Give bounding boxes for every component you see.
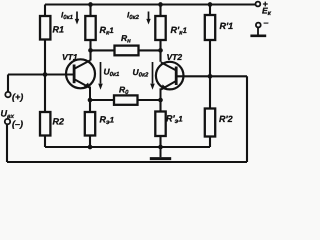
current arrow I0k2 [146, 12, 150, 25]
node VT2 base / R'1 R'2 [208, 74, 213, 79]
wire R1 column top lead [44, 5, 46, 17]
voltage arrow U0k2 [150, 62, 155, 90]
terminal -Ek [256, 23, 261, 28]
node bottom rail / R'e1 / ground [158, 145, 163, 150]
resistor Re1 [85, 112, 95, 136]
svg-text:–: – [264, 18, 269, 28]
resistor R'e1 [155, 112, 165, 137]
wire Rn left [91, 49, 115, 51]
transistor VT1 [66, 59, 95, 100]
wire right return down [246, 76, 248, 162]
resistor Rn [115, 46, 139, 56]
wire Rk1 bottom to VT1 collector [89, 40, 91, 61]
terminal (-) input [5, 119, 10, 124]
svg-text:VT1: VT1 [62, 52, 78, 62]
svg-text:R′1: R′1 [220, 21, 234, 31]
wire Re1 bottom lead [89, 136, 91, 148]
wire R'1 column top lead [209, 5, 211, 16]
terminal (+) input [5, 92, 10, 97]
node top rail / R'1 [208, 2, 213, 7]
svg-text:R′2: R′2 [219, 114, 233, 124]
wire Rk1 column top lead [89, 5, 91, 17]
node VT1 collector / Rn [88, 48, 93, 53]
node VT2 collector / Rn [158, 48, 163, 53]
wire R'e1 bottom lead [159, 136, 161, 147]
svg-text:VT2: VT2 [167, 52, 183, 62]
wire R'k1 bottom to VT2 collector [159, 40, 161, 62]
svg-text:R′э1: R′э1 [166, 114, 183, 126]
node top rail / R'k1 [158, 2, 163, 7]
node top rail / Rk1 [88, 2, 93, 7]
wire R'k1 column top lead [159, 5, 161, 17]
resistor Rk1 [85, 16, 95, 40]
wire Re1 top lead [89, 100, 91, 112]
wire top rail +Ek [45, 3, 255, 5]
wire bottom return to (-) input [7, 161, 247, 163]
current arrow I0k1 [75, 12, 79, 25]
resistor R0 [114, 95, 138, 104]
wire R'2 bottom lead [209, 137, 211, 148]
resistor R'2 [205, 109, 215, 137]
resistor R'k1 [155, 16, 165, 40]
wire bottom rail [45, 146, 210, 148]
wire VT2 base to R'1 node and right return [177, 75, 247, 77]
resistor R'1 [205, 15, 215, 40]
svg-text:R′к1: R′к1 [171, 25, 188, 37]
node VT1 emitter / R0 / Re1 [88, 98, 93, 103]
wire R2 bottom lead [44, 136, 46, 148]
wire R0 right [138, 99, 161, 101]
wire VT1 base [8, 73, 74, 75]
resistor R1 [40, 16, 50, 40]
node VT1 base / R1 R2 [43, 72, 48, 77]
voltage arrow U0k1 [98, 62, 103, 90]
wire Rn right [139, 49, 161, 51]
svg-text:R2: R2 [53, 117, 65, 127]
wire R0 left [90, 99, 114, 101]
svg-text:(–): (–) [12, 119, 23, 129]
node bottom rail / Re1 [88, 145, 93, 150]
wire (-) input lead [6, 124, 8, 162]
svg-text:R1: R1 [53, 25, 65, 35]
ground [160, 147, 162, 157]
svg-text:(+): (+) [12, 92, 23, 102]
transistor VT2 [156, 62, 184, 100]
node VT2 emitter / R0 / R'e1 [158, 98, 163, 103]
resistor R2 [40, 112, 50, 136]
wire (+) input lead [7, 75, 9, 93]
ground -Ek [257, 27, 259, 34]
wire R1 bottom to base node [44, 40, 46, 113]
wire R'e1 top lead [159, 100, 161, 112]
wire R'1 bottom to VT2 base node [209, 40, 211, 109]
terminal +Ek [256, 2, 261, 7]
